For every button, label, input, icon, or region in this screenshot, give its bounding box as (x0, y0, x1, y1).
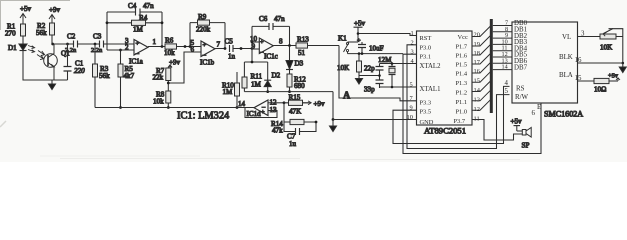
wire pin13 feedback (245, 108, 277, 118)
capacitor C2 (65, 33, 78, 55)
svg-text:1: 1 (411, 30, 414, 37)
svg-text:P1.4: P1.4 (456, 71, 468, 78)
LCD pin numbers left (502, 20, 509, 71)
wire D1 to ground run (23, 51, 68, 80)
svg-text:+: + (203, 42, 207, 49)
svg-text:56k: 56k (36, 29, 47, 37)
svg-text:IC1c: IC1c (264, 53, 278, 61)
resistor R16 10K (337, 52, 362, 75)
svg-text:BLA: BLA (559, 72, 573, 79)
wire IC1a out (148, 46, 165, 48)
wire (78, 43, 100, 45)
svg-text:+: + (136, 41, 140, 48)
resistor R15 (284, 94, 325, 116)
svg-text:14: 14 (238, 100, 246, 108)
svg-text:5: 5 (505, 88, 509, 95)
resistor R2 (36, 22, 55, 37)
svg-text:R6: R6 (165, 37, 174, 45)
svg-text:7: 7 (217, 41, 221, 49)
svg-text:P1.0: P1.0 (456, 109, 468, 116)
wire IC1c out (273, 45, 296, 47)
bus trunk (490, 19, 493, 113)
node R3 top (94, 43, 97, 46)
svg-text:1M: 1M (133, 26, 144, 34)
MCU U1 AT89C2051 box (417, 31, 473, 125)
capacitor C8 10uF (357, 38, 384, 54)
svg-text:12: 12 (474, 106, 480, 113)
svg-text:P3.1: P3.1 (420, 54, 432, 61)
svg-text:P3.5: P3.5 (420, 109, 432, 116)
LED D1 (8, 44, 35, 53)
switch K1 (338, 35, 358, 54)
svg-text:Vcc: Vcc (458, 34, 468, 41)
op-amp IC1c (250, 35, 283, 61)
resistor R6 (164, 37, 177, 58)
svg-text:680: 680 (294, 82, 305, 90)
svg-text:2.2n: 2.2n (65, 47, 77, 54)
power +9v divider (168, 59, 181, 69)
svg-text:A: A (343, 91, 351, 102)
XTAL2 wire (380, 63, 417, 65)
svg-text:P1.7: P1.7 (456, 44, 468, 51)
svg-text:6: 6 (191, 46, 195, 54)
svg-text:R11: R11 (251, 73, 263, 81)
svg-text:6: 6 (532, 110, 536, 117)
svg-text:C2: C2 (67, 33, 76, 41)
svg-text:10k: 10k (153, 98, 164, 106)
LCD inner labels (505, 20, 586, 117)
svg-text:RS: RS (516, 86, 525, 93)
svg-text:K1: K1 (338, 35, 347, 43)
svg-text:56k: 56k (99, 72, 110, 80)
capacitor C5 (225, 38, 236, 61)
svg-text:2: 2 (411, 40, 414, 47)
wire C5 to node (233, 48, 252, 50)
svg-text:220: 220 (74, 67, 85, 75)
svg-text:17: 17 (474, 59, 481, 66)
wire R2 to node (51, 35, 53, 44)
capacitor C3 (91, 33, 104, 55)
wire R13 to A drop (308, 45, 340, 47)
feedback resistor R9 (190, 13, 225, 49)
svg-text:14: 14 (474, 87, 481, 94)
svg-text:+: + (260, 39, 264, 46)
svg-text:RST: RST (420, 35, 432, 42)
ground tie (332, 92, 334, 120)
power +5v speaker (511, 118, 523, 132)
svg-text:P1.5: P1.5 (456, 62, 468, 69)
svg-text:9: 9 (252, 43, 256, 51)
svg-text:+9v: +9v (314, 100, 326, 108)
resistor R10 (222, 72, 240, 108)
svg-text:1M: 1M (223, 88, 234, 96)
svg-text:1n: 1n (228, 53, 236, 61)
svg-text:AT89C2051: AT89C2051 (424, 126, 466, 136)
svg-text:R4: R4 (139, 14, 148, 22)
svg-text:R15: R15 (289, 94, 301, 102)
svg-text:47K: 47K (289, 108, 302, 116)
svg-text:+: + (357, 38, 361, 45)
diode D3 (286, 46, 304, 75)
MCU right pin labels (454, 32, 481, 126)
resistor R17 10ohm (578, 73, 621, 94)
svg-text:13: 13 (474, 97, 480, 104)
svg-text:47n: 47n (274, 15, 285, 23)
node column IC1c input (251, 26, 253, 62)
capacitor C10 33p (364, 78, 384, 94)
svg-text:8: 8 (279, 38, 283, 46)
svg-text:R/W: R/W (515, 94, 529, 101)
svg-text:2: 2 (125, 44, 129, 52)
svg-text:+9v: +9v (49, 6, 61, 14)
svg-text:1: 1 (153, 38, 157, 46)
crystal Y1 12M (378, 56, 396, 87)
svg-text:1M: 1M (251, 81, 262, 89)
svg-text:P3.7: P3.7 (454, 118, 466, 125)
svg-text:220k: 220k (196, 26, 211, 34)
feedback loop C4 / R4 (106, 2, 164, 50)
ground arrow crystal (356, 76, 363, 85)
svg-text:+5v: +5v (608, 73, 619, 80)
wire +5v to RST pin1 (358, 34, 417, 36)
svg-text:10k: 10k (164, 49, 175, 57)
pin3 P3.1 wire to E (403, 54, 541, 153)
svg-text:R9: R9 (198, 13, 207, 21)
wire main (53, 43, 74, 45)
svg-text:IC1a: IC1a (129, 58, 144, 66)
parallel R11 D2 (242, 61, 281, 92)
svg-text:10K: 10K (337, 64, 350, 72)
svg-text:47n: 47n (143, 2, 154, 10)
svg-text:E: E (537, 104, 541, 111)
wire pin10 (252, 41, 259, 43)
wire pin6 to divider (168, 52, 201, 83)
power +5v reset (354, 20, 366, 43)
svg-text:D2: D2 (272, 72, 281, 80)
svg-text:4k7: 4k7 (124, 72, 135, 80)
wire R6 to IC1b (177, 46, 202, 48)
svg-text:20: 20 (474, 32, 480, 39)
ground arrow mcu (330, 120, 337, 132)
BLK ground wire (578, 62, 623, 64)
svg-text:1u: 1u (289, 140, 297, 148)
svg-text:+5v: +5v (354, 20, 366, 28)
wire (22, 36, 24, 44)
pin11 P3.7 wire to speaker (472, 120, 522, 141)
svg-text:22p: 22p (364, 65, 375, 73)
resistor R8 (153, 91, 171, 108)
svg-text:P1.1: P1.1 (456, 99, 468, 106)
svg-text:P3.0: P3.0 (420, 45, 432, 52)
svg-text:VL: VL (562, 34, 571, 41)
svg-text:10Ω: 10Ω (594, 86, 606, 94)
resistor R13 (296, 36, 309, 58)
svg-text:16: 16 (474, 68, 480, 75)
svg-text:+5v: +5v (20, 5, 32, 13)
wire IC1b out (215, 48, 226, 50)
svg-text:P3.3: P3.3 (420, 100, 432, 107)
wire to IC1a pin3 (104, 43, 135, 45)
svg-text:19: 19 (474, 41, 480, 48)
svg-text:51: 51 (298, 49, 306, 57)
svg-text:10uF: 10uF (369, 45, 384, 53)
capacitor C9 22p (364, 64, 384, 79)
svg-text:18: 18 (474, 50, 480, 57)
svg-text:XTAL1: XTAL1 (420, 86, 441, 93)
svg-text:5: 5 (410, 82, 413, 89)
svg-text:15: 15 (474, 78, 480, 85)
svg-text:12M: 12M (378, 56, 392, 64)
svg-text:C3: C3 (93, 33, 102, 41)
svg-text:GND: GND (420, 119, 434, 126)
resistor R14 (271, 103, 316, 135)
RST node wire (348, 53, 404, 55)
svg-text:IC1b: IC1b (200, 59, 215, 67)
MCU left pin labels (407, 30, 442, 126)
svg-text:+: + (261, 109, 265, 116)
svg-text:C4: C4 (128, 2, 137, 10)
XTAL1 wire (380, 87, 417, 88)
node R7/R8 (167, 81, 169, 92)
ground arrow BLK (619, 63, 626, 73)
resistor R3 (93, 44, 111, 108)
analog ground rail (244, 91, 333, 93)
capacitor C7 (284, 122, 316, 148)
photo arrows into Q1 (37, 51, 45, 60)
svg-text:D1: D1 (8, 44, 17, 52)
wire pin9 (252, 48, 259, 50)
feedback capacitor C6 (252, 15, 290, 46)
svg-text:10K: 10K (600, 44, 613, 52)
svg-text:P1.2: P1.2 (456, 90, 468, 97)
svg-text:R13: R13 (297, 36, 309, 44)
resistor R5 (118, 50, 135, 108)
svg-text:C5: C5 (225, 38, 234, 46)
resistor R1 (5, 23, 26, 38)
svg-text:C6: C6 (259, 15, 268, 23)
svg-text:22k: 22k (153, 74, 164, 82)
op-amp IC1b (191, 39, 221, 67)
LCD module SMC1602A box (512, 22, 578, 103)
svg-text:DB7: DB7 (514, 64, 528, 71)
power +5v left (20, 5, 32, 24)
bus stubs MCU side (472, 26, 491, 111)
ground arrow left (49, 80, 56, 90)
speaker SP (517, 128, 531, 150)
pin9 P3.5 wire to RS (393, 86, 510, 143)
op-amp IC1a (125, 37, 157, 66)
crystal ground line (359, 75, 380, 77)
svg-text:XTAL2: XTAL2 (420, 63, 442, 70)
svg-text:P1.6: P1.6 (456, 53, 468, 60)
op-amp IC1d (238, 99, 277, 119)
svg-text:BLK: BLK (559, 54, 573, 61)
transistor Q1 (44, 44, 70, 80)
svg-text:+5v: +5v (511, 118, 523, 126)
svg-text:D3: D3 (295, 60, 304, 68)
svg-text:SMC1602A: SMC1602A (544, 110, 583, 119)
node Q1 collector (51, 43, 54, 46)
svg-text:4: 4 (505, 80, 509, 87)
resistor R7 (153, 67, 171, 82)
GND wire (333, 119, 417, 121)
power +9v left (49, 6, 61, 23)
svg-text:33p: 33p (364, 86, 375, 94)
svg-text:47k: 47k (272, 127, 283, 135)
wire pin2 (107, 49, 134, 51)
bus stubs LCD side (493, 26, 512, 70)
resistor R12 (287, 74, 306, 92)
svg-text:2.2n: 2.2n (91, 47, 103, 54)
svg-text:IC1: LM324: IC1: LM324 (177, 111, 230, 122)
wire pin12 (268, 102, 284, 104)
pin2 P3.0 wire to R/W (407, 45, 510, 149)
reference rail from IC1d (95, 107, 254, 109)
capacitor C1 (64, 43, 86, 80)
net A wire (339, 46, 417, 101)
svg-text:270: 270 (5, 30, 16, 38)
svg-text:SP: SP (522, 142, 530, 150)
svg-text:P1.3: P1.3 (456, 80, 468, 87)
svg-text:14: 14 (502, 64, 508, 71)
potentiometer RP 10K (578, 29, 623, 64)
